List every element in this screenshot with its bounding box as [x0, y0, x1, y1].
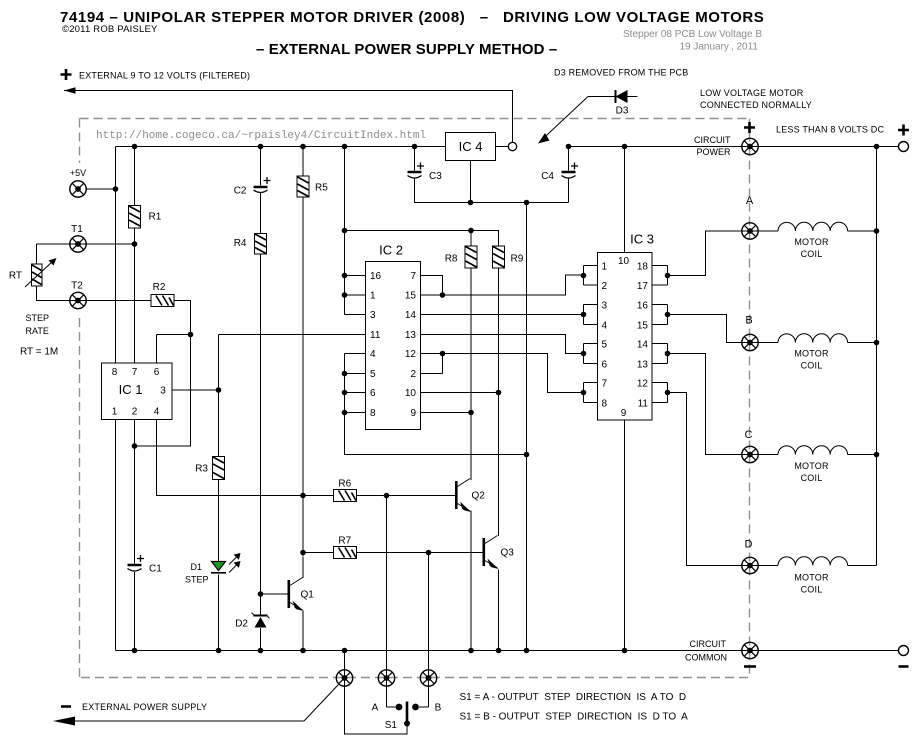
svg-text:2: 2: [410, 369, 416, 380]
svg-text:T2: T2: [71, 281, 83, 292]
svg-text:15: 15: [405, 291, 417, 302]
svg-text:EXTERNAL POWER SUPPLY: EXTERNAL POWER SUPPLY: [82, 702, 207, 712]
svg-text:+5V: +5V: [70, 168, 86, 178]
svg-text:S1 = B - OUTPUT STEP DIRECTI: S1 = B - OUTPUT STEP DIRECTION IS D TO A: [460, 712, 689, 723]
svg-text:C3: C3: [429, 171, 442, 182]
svg-text:1: 1: [112, 407, 118, 418]
svg-text:7: 7: [410, 271, 416, 282]
svg-text:1: 1: [370, 291, 376, 302]
svg-text:3: 3: [602, 301, 608, 312]
svg-text:C1: C1: [149, 564, 162, 575]
svg-text:Q1: Q1: [301, 590, 315, 601]
svg-text:2: 2: [602, 281, 608, 292]
svg-text:4: 4: [154, 407, 160, 418]
svg-text:STEP: STEP: [185, 575, 209, 585]
svg-text:IC 2: IC 2: [379, 243, 403, 258]
svg-text:5: 5: [602, 340, 608, 351]
svg-text:©2011 ROB PAISLEY: ©2011 ROB PAISLEY: [62, 24, 158, 35]
svg-text:16: 16: [370, 271, 382, 282]
svg-text:R1: R1: [149, 212, 162, 223]
svg-text:R6: R6: [338, 479, 351, 490]
svg-text:6: 6: [370, 388, 376, 399]
svg-text:COIL: COIL: [801, 585, 823, 595]
svg-text:17: 17: [637, 281, 649, 292]
svg-text:11: 11: [370, 330, 381, 341]
svg-text:4: 4: [602, 321, 608, 332]
svg-text:R4: R4: [234, 238, 247, 249]
svg-text:B: B: [435, 703, 442, 714]
svg-text:14: 14: [637, 340, 649, 351]
svg-text:RATE: RATE: [26, 326, 49, 336]
svg-text:8: 8: [602, 399, 608, 410]
svg-text:Stepper 08 PCB Low Voltage B: Stepper 08 PCB Low Voltage B: [623, 29, 762, 40]
svg-text:4: 4: [370, 349, 376, 360]
svg-text:CIRCUIT: CIRCUIT: [694, 135, 731, 145]
svg-text:Q2: Q2: [472, 491, 486, 502]
svg-text:B: B: [745, 315, 752, 327]
svg-text:14: 14: [405, 310, 417, 321]
svg-text:R9: R9: [511, 254, 524, 265]
svg-text:COIL: COIL: [801, 249, 823, 259]
svg-text:MOTOR: MOTOR: [794, 349, 829, 359]
svg-text:IC 3: IC 3: [630, 232, 654, 247]
svg-text:STEP: STEP: [26, 313, 50, 323]
svg-text:POWER: POWER: [696, 147, 731, 157]
svg-text:11: 11: [638, 399, 649, 410]
svg-text:IC 4: IC 4: [459, 139, 483, 154]
svg-text:RT: RT: [9, 271, 22, 282]
svg-text:5: 5: [370, 369, 376, 380]
svg-text:7: 7: [132, 367, 138, 378]
svg-text:D: D: [745, 539, 753, 551]
svg-text:13: 13: [405, 330, 417, 341]
svg-text:D2: D2: [235, 619, 248, 630]
svg-text:12: 12: [637, 379, 649, 390]
svg-text:6: 6: [154, 367, 160, 378]
svg-text:COIL: COIL: [801, 473, 823, 483]
svg-text:1: 1: [602, 262, 608, 273]
svg-text:LOW VOLTAGE MOTOR: LOW VOLTAGE MOTOR: [700, 88, 804, 98]
svg-text:S1: S1: [385, 720, 398, 731]
svg-text:6: 6: [602, 360, 608, 371]
svg-text:R5: R5: [315, 183, 328, 194]
svg-text:Q3: Q3: [501, 548, 515, 559]
svg-text:D3: D3: [616, 106, 629, 117]
svg-text:7: 7: [602, 379, 608, 390]
svg-text:RT = 1M: RT = 1M: [20, 347, 58, 358]
svg-text:– EXTERNAL POWER SUPPLY METHOD: – EXTERNAL POWER SUPPLY METHOD –: [256, 41, 557, 58]
svg-text:CONNECTED NORMALLY: CONNECTED NORMALLY: [700, 100, 812, 110]
svg-text:CIRCUIT: CIRCUIT: [690, 639, 727, 649]
svg-text:C2: C2: [234, 186, 247, 197]
svg-text:13: 13: [637, 360, 649, 371]
svg-text:D3 REMOVED FROM THE PCB: D3 REMOVED FROM THE PCB: [554, 68, 688, 78]
svg-text:3: 3: [160, 386, 166, 397]
svg-text:MOTOR: MOTOR: [794, 573, 829, 583]
svg-text:R7: R7: [338, 536, 351, 547]
svg-text:C4: C4: [541, 171, 554, 182]
svg-text:15: 15: [637, 321, 649, 332]
svg-text:10: 10: [405, 388, 417, 399]
svg-text:COIL: COIL: [801, 361, 823, 371]
svg-text:R2: R2: [153, 282, 166, 293]
svg-text:COMMON: COMMON: [685, 653, 727, 663]
svg-text:A: A: [746, 195, 754, 207]
svg-text:MOTOR: MOTOR: [794, 461, 829, 471]
svg-text:74194 – UNIPOLAR STEPPER MOTOR: 74194 – UNIPOLAR STEPPER MOTOR DRIVER (2…: [60, 9, 764, 26]
svg-text:S1 = A - OUTPUT STEP DIRECTI: S1 = A - OUTPUT STEP DIRECTION IS A TO D: [460, 692, 687, 703]
svg-text:9: 9: [621, 408, 627, 419]
svg-text:MOTOR: MOTOR: [794, 237, 829, 247]
svg-text:8: 8: [112, 367, 118, 378]
svg-text:9: 9: [410, 408, 416, 419]
svg-text:R8: R8: [445, 254, 458, 265]
svg-text:D1: D1: [190, 562, 202, 572]
svg-text:T1: T1: [71, 224, 83, 235]
svg-text:10: 10: [618, 256, 630, 267]
svg-text:C: C: [745, 429, 753, 441]
svg-text:EXTERNAL 9 TO 12 VOLTS (FILTER: EXTERNAL 9 TO 12 VOLTS (FILTERED): [79, 71, 250, 81]
svg-text:R3: R3: [195, 464, 208, 475]
svg-text:A: A: [372, 703, 379, 714]
svg-text:19 January , 2011: 19 January , 2011: [679, 42, 758, 53]
svg-text:18: 18: [637, 262, 649, 273]
svg-text:2: 2: [132, 407, 138, 418]
svg-text:IC 1: IC 1: [119, 382, 143, 397]
svg-text:LESS THAN 8 VOLTS DC: LESS THAN 8 VOLTS DC: [776, 125, 884, 135]
svg-text:3: 3: [370, 310, 376, 321]
svg-text:12: 12: [405, 349, 417, 360]
svg-text:16: 16: [637, 301, 649, 312]
svg-text:http://home.cogeco.ca/~rpaisle: http://home.cogeco.ca/~rpaisley4/Circuit…: [96, 130, 426, 142]
svg-text:8: 8: [370, 408, 376, 419]
